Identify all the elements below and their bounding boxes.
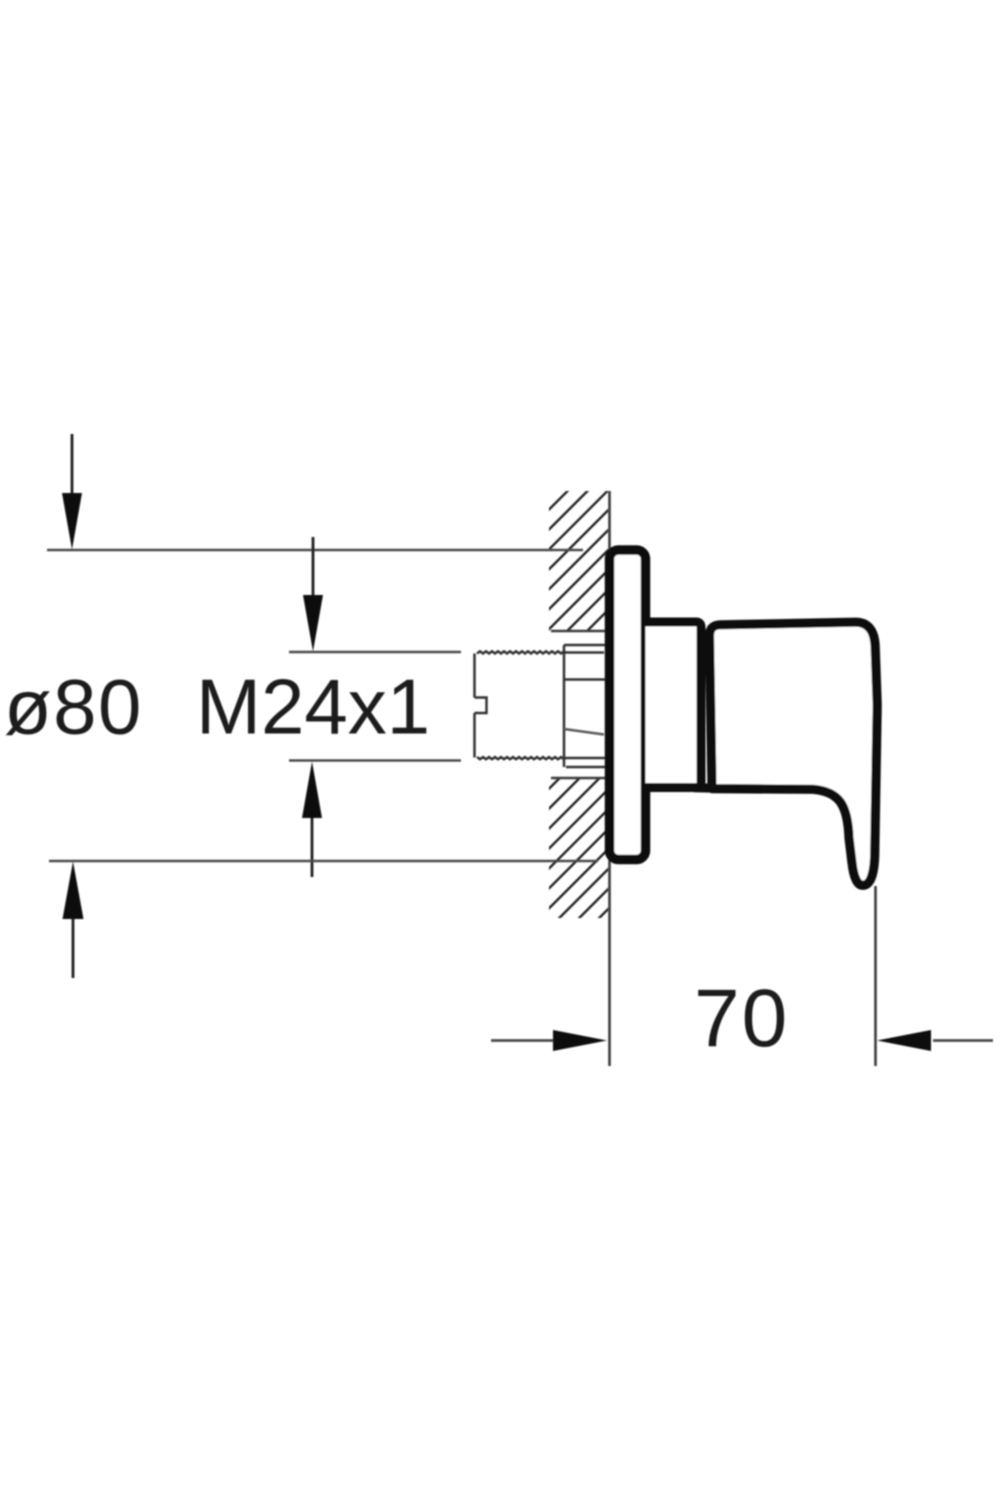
handle bbox=[709, 622, 877, 885]
dimension line D (ø80 bottom) bbox=[49, 860, 598, 863]
dimension line A (ø80 top) bbox=[47, 549, 583, 552]
dimension line B (M24 top) bbox=[289, 651, 461, 654]
70 dim right arrow bbox=[877, 1030, 931, 1051]
wall hatch lower band bbox=[549, 778, 608, 918]
arrow 2 down bbox=[303, 537, 323, 652]
wall hole lower edge bbox=[551, 777, 608, 779]
wall face line bbox=[608, 491, 611, 1066]
70 dim left arrow bbox=[553, 1030, 607, 1051]
70 dim left line bbox=[491, 1039, 560, 1042]
70 dim right line bbox=[933, 1039, 993, 1042]
extension line from handle bbox=[874, 886, 877, 1066]
wall hole upper edge bbox=[551, 630, 608, 632]
dimension line C (M24 bottom) bbox=[289, 759, 461, 762]
svg-text:ø80: ø80 bbox=[4, 663, 143, 751]
svg-text:70: 70 bbox=[694, 973, 789, 1064]
wire neck-handle bottom joint bbox=[694, 783, 718, 793]
valve spindle bbox=[475, 651, 566, 759]
packing nut bbox=[564, 645, 607, 767]
escutcheon flange bbox=[610, 550, 646, 860]
arrow 1 down bbox=[62, 434, 82, 550]
arrow 3 up bbox=[302, 762, 322, 878]
svg-text:M24x1: M24x1 bbox=[196, 663, 430, 751]
valve neck bbox=[646, 622, 702, 788]
wall hatch upper band bbox=[549, 491, 608, 631]
arrow 4 up bbox=[63, 862, 84, 979]
